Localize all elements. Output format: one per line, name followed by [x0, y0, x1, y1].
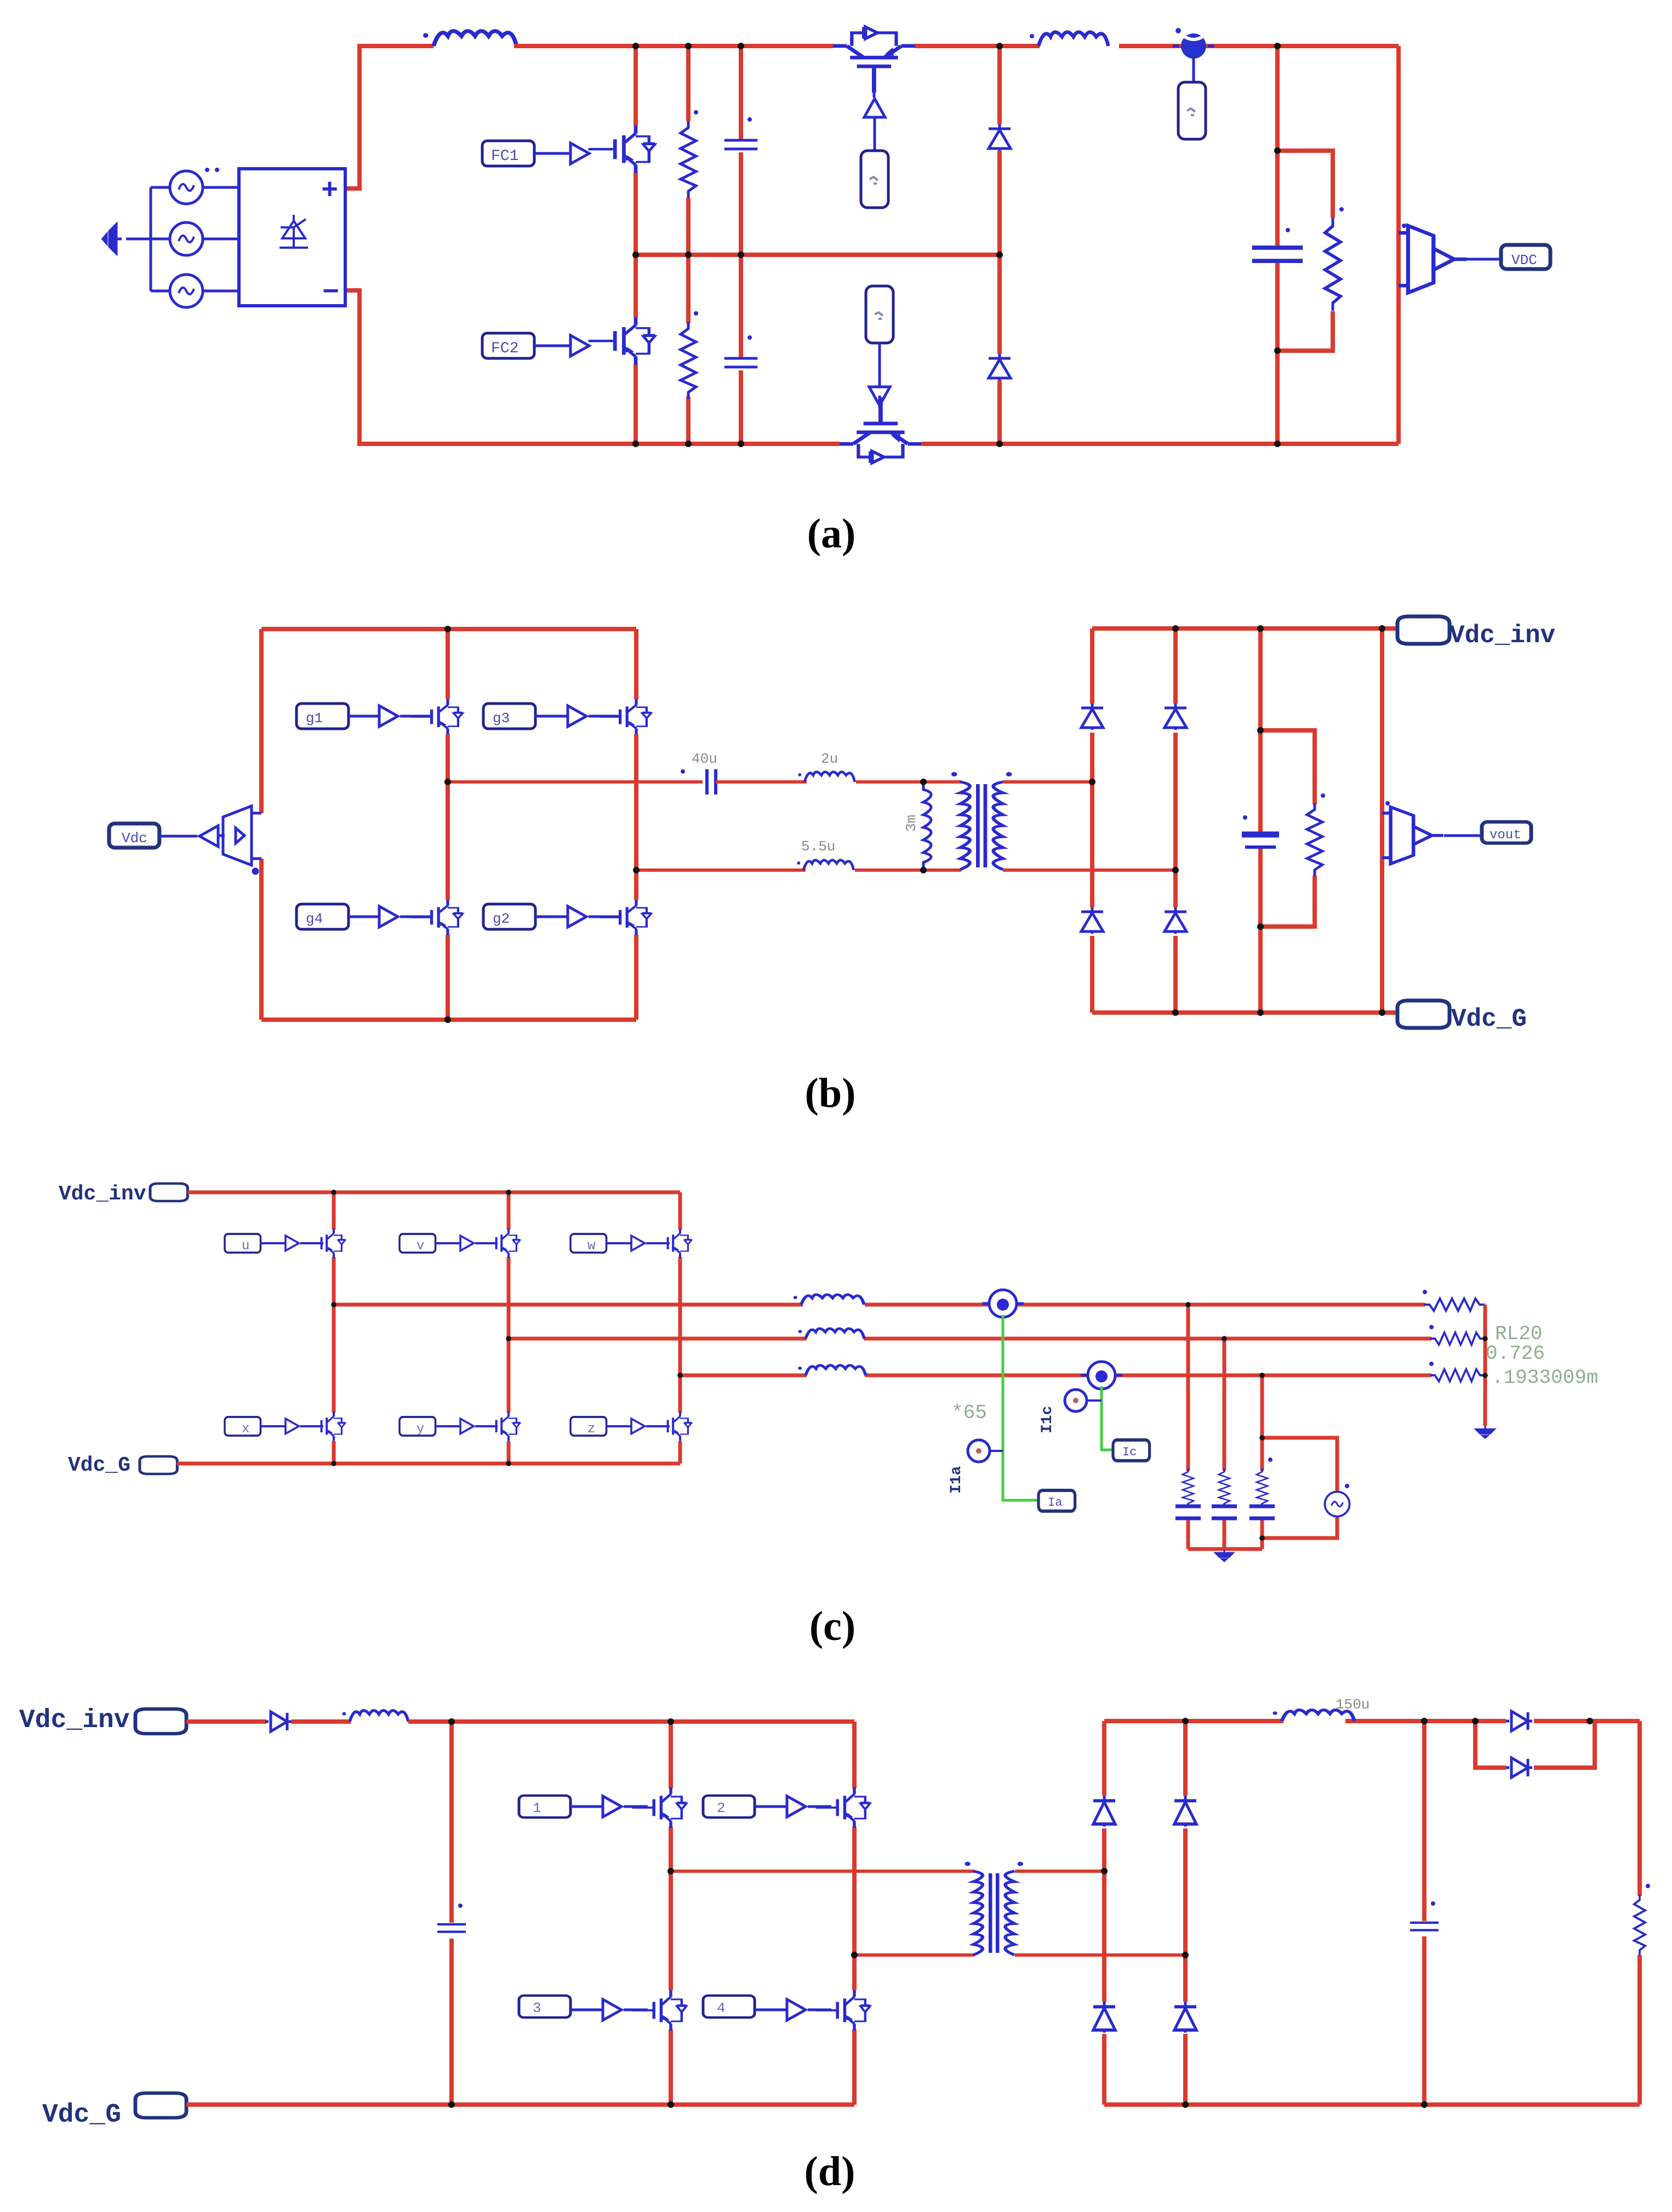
buffer upper C — [631, 1236, 644, 1250]
wire: inductor to transformer primary top — [856, 780, 961, 784]
polarity dot — [1429, 1325, 1434, 1329]
wire: source B leads — [151, 238, 239, 241]
diode DB2 (x2015 lower) — [1093, 2002, 1115, 2033]
wire: source C leads — [151, 290, 239, 293]
svg-text:x: x — [242, 1422, 249, 1437]
wire: bus x1824 diode leg segments — [997, 46, 1002, 444]
current sensor phase C — [1081, 1362, 1122, 1389]
ground filter — [1216, 1550, 1233, 1561]
wire: diode to inductor — [292, 1719, 351, 1724]
buffer p4 — [787, 1999, 806, 2020]
buffer FC1 — [570, 143, 589, 164]
svg-text:−: − — [322, 277, 339, 309]
load resistor — [1634, 1895, 1645, 1956]
probe vd — [1178, 82, 1206, 139]
junction dots right section — [1089, 779, 1095, 785]
junction 1224,3142 — [667, 1718, 674, 1725]
gating probe box Q4 — [866, 286, 893, 343]
junction 2300,1147 — [1257, 625, 1264, 632]
wire: bottom rail — [177, 1462, 680, 1466]
svg-text:(c): (c) — [809, 1603, 855, 1649]
wire: sensor to VDC tag — [1456, 258, 1501, 261]
voltage sensor vout — [1382, 807, 1443, 864]
svg-text:FC2: FC2 — [491, 340, 518, 357]
polarity dot sensor — [1385, 801, 1390, 805]
green wire: sensor C down to Ic tag — [1102, 1386, 1113, 1450]
gating block z (lower C) — [570, 1417, 607, 1436]
polarity dot R1 — [694, 110, 698, 115]
buffer g4 — [379, 906, 398, 927]
wire: bus xC 1241 — [678, 1192, 682, 1464]
wire: ground to source bus — [126, 238, 151, 241]
wire: to buffer — [436, 1242, 460, 1244]
wire: right section bottom rail — [1092, 1010, 1382, 1015]
resistor Rload (loop x2399) — [1307, 803, 1322, 876]
output capacitor (bus x2300, polarized) — [1242, 834, 1279, 847]
gating probe box Q3 — [861, 151, 888, 208]
wire: output bridge bus x2163 — [1183, 1721, 1188, 2105]
svg-text:150u: 150u — [1336, 1696, 1369, 1713]
junction 2303,2624 — [1259, 1435, 1265, 1441]
buffer lower C — [631, 1419, 644, 1433]
diode DB4 (x2163 lower) — [1174, 2002, 1196, 2033]
junction 824,3841 — [448, 2101, 455, 2108]
wire: cap bus x2300 — [1258, 628, 1263, 1013]
junction dots snubber loop — [1274, 147, 1281, 154]
junction 1256,810 — [685, 441, 692, 447]
junction 2145,1588 — [1172, 867, 1179, 873]
junction 1256,84 — [685, 43, 692, 49]
junction 1559,3568 — [851, 1952, 858, 1958]
svg-text:g2: g2 — [493, 911, 510, 927]
junction 2303,2807 — [1259, 1535, 1265, 1541]
svg-text:.1933009m: .1933009m — [1492, 1367, 1598, 1389]
wire: top rail middle segment — [514, 44, 833, 48]
voltage sensor VDC — [1399, 226, 1467, 293]
svg-text:FC1: FC1 — [491, 148, 518, 165]
junction 2331,640 — [1274, 347, 1281, 354]
IGBT C-low — [652, 1411, 692, 1441]
wire: bridge mid tap to primary top — [671, 1870, 974, 1873]
svg-text:VDC: VDC — [1511, 252, 1537, 268]
wire: bottom rail right segment — [922, 442, 1399, 446]
inductor L2 on top rail — [1030, 32, 1108, 46]
diode DB3 (x2163 upper) — [1174, 1796, 1196, 1827]
buffer p2 — [787, 1796, 806, 1817]
wire: top rail right of top IGBT — [915, 44, 1040, 48]
wire: to buffer — [436, 1425, 460, 1427]
wire: g4 to buffer — [349, 916, 379, 918]
wire: bus xB 928 — [507, 1192, 511, 1464]
wire: to buffer — [570, 1805, 603, 1808]
svg-text:1: 1 — [533, 1800, 541, 1816]
junction 2300,1333 — [1257, 727, 1264, 734]
load RL phase C — [1430, 1369, 1485, 1381]
svg-text:(a): (a) — [807, 511, 856, 557]
branch B capacitor — [1212, 1506, 1237, 1518]
inductor phase B — [798, 1329, 864, 1339]
junction 1352,465 — [738, 252, 744, 258]
polarity dot C2 — [747, 335, 752, 340]
wire: phase B line — [509, 1337, 1431, 1341]
gating block p3 (lower-left) — [519, 1996, 570, 2017]
polarity dot sensor — [1402, 224, 1406, 228]
polarity dot 40u — [681, 769, 685, 774]
terminal tag Vdc input — [109, 824, 159, 848]
wire: bus x1160 segments — [634, 46, 638, 444]
inductor 5.5u — [797, 860, 853, 870]
wire: dc-link cap bus x824 — [449, 1722, 454, 2105]
terminal tag vout — [1482, 822, 1531, 843]
IGBT Q3 (series in top rail, horizontal) — [833, 27, 915, 93]
svg-text:g3: g3 — [493, 710, 510, 727]
transformer T — [965, 1862, 1023, 1955]
AC source vgrid — [1325, 1492, 1350, 1517]
capacitor 40u (series, vertical plates) — [707, 769, 716, 795]
output capacitor — [1410, 1923, 1439, 1930]
svg-text:0.726: 0.726 — [1486, 1342, 1545, 1365]
gating block FC1 — [482, 141, 534, 166]
svg-text:w: w — [587, 1239, 596, 1254]
junction 928,2671 — [506, 1461, 511, 1466]
polarity dot — [253, 869, 258, 873]
input inductor — [343, 1711, 408, 1722]
dc-link capacitor — [437, 1924, 466, 1932]
junction 1224,3841 — [667, 2101, 674, 2108]
svg-text:RL20: RL20 — [1495, 1323, 1542, 1345]
wire: bridge mid tap A to cap — [448, 780, 703, 784]
wire: to buffer — [607, 1242, 631, 1244]
junction dots transformer taps — [920, 779, 927, 785]
svg-text:(d): (d) — [804, 2148, 855, 2194]
svg-text:Vdc_G: Vdc_G — [68, 1454, 130, 1477]
IGBT Q2 (lower, bus x1160) — [589, 317, 655, 364]
junction 1241,2510 — [677, 1373, 683, 1378]
IGBT S1 (upper, bus x817) — [411, 699, 463, 734]
junction 2303,2510 — [1259, 1373, 1265, 1378]
wire: to buffer — [261, 1242, 286, 1244]
wire: diode bus x2145 — [1173, 628, 1178, 1013]
svg-text:2u: 2u — [821, 751, 838, 767]
wire: bridge mid tap B — [636, 868, 806, 872]
wire: output bridge bus x2015 — [1102, 1721, 1106, 2105]
wire: filter common bus — [1188, 1547, 1262, 1551]
junction 1256,465 — [685, 252, 692, 258]
magnetizing inductor 3m (vertical) — [923, 782, 931, 870]
wire: secondary top to bridge — [1003, 780, 1092, 784]
wire: right edge bus — [1396, 46, 1401, 444]
junction dots top rail — [331, 1190, 336, 1195]
junction 2331,810 — [1274, 441, 1281, 447]
junction 2145,1848 — [1172, 1009, 1179, 1016]
wire: bridge bus x1559 — [852, 1722, 857, 2105]
junction dots left section — [448, 1718, 455, 1725]
svg-text:4: 4 — [717, 2000, 726, 2016]
junction 2163,3141 — [1182, 1718, 1189, 1724]
diode D1 (bus x1824 upper) — [989, 124, 1011, 151]
gating block g1 (upper-left) — [296, 704, 349, 729]
wire: secondary top to bridge — [1015, 1870, 1104, 1873]
rectifier bridge block — [239, 169, 345, 309]
wire: filter branch C — [1260, 1375, 1264, 1549]
transformer T1 — [951, 772, 1012, 870]
wire: right edge bus — [1380, 628, 1384, 1013]
wire: resistor loop — [1260, 730, 1315, 927]
junction 1352,810 — [738, 441, 744, 447]
resistor R1 upper — [681, 121, 696, 198]
junction 928,2176 — [506, 1190, 511, 1195]
junction 1224,3415 — [667, 1868, 674, 1874]
junction 1824,465 — [996, 252, 1003, 258]
wire: center bus x817 segments — [446, 629, 450, 1020]
load RL phase A — [1424, 1299, 1485, 1311]
resistor R2 lower — [681, 322, 696, 399]
polarity dot load — [1646, 1884, 1650, 1888]
gating block x (lower A) — [225, 1417, 261, 1436]
junction 817,1427 — [444, 779, 451, 785]
polarity dot R2 — [694, 311, 698, 316]
gating block v (upper B) — [400, 1234, 436, 1253]
polarity dot C3 — [1286, 228, 1290, 232]
junction 2300,1848 — [1257, 1009, 1264, 1016]
svg-text:z: z — [587, 1422, 595, 1437]
ammeter I1a circle — [968, 1440, 1003, 1462]
wire: inductor to top rail — [408, 1719, 854, 1724]
diode D1 (x1993 upper) — [1081, 704, 1103, 730]
inductor 2u — [798, 772, 854, 782]
IGBT T2 (upper, bus x1559) — [816, 1787, 870, 1828]
branch B damping resistor — [1219, 1468, 1230, 1507]
AC source Va — [170, 171, 203, 204]
wire: to buffer — [607, 1425, 631, 1427]
junction dots mid rail — [632, 252, 639, 258]
wire: phase A line — [334, 1303, 1425, 1307]
wire: to buffer — [755, 1805, 787, 1808]
polarity dot branch C — [1268, 1457, 1272, 1462]
svg-text:(b): (b) — [805, 1070, 856, 1116]
IGBT B-high — [481, 1228, 520, 1258]
junction dots output section — [1101, 1868, 1108, 1874]
junction 2300,1691 — [1257, 923, 1264, 930]
wire: right section top rail — [1092, 626, 1382, 631]
diode D2 (bus x1824 lower) — [989, 354, 1011, 380]
wire: box to buffer Q4 — [878, 343, 881, 387]
wire: filter branch B — [1223, 1339, 1226, 1549]
buffer g3 — [568, 706, 586, 727]
junction 2163,3841 — [1182, 2101, 1189, 2108]
polarity dot C1 — [747, 117, 752, 122]
AC source Vb — [170, 222, 203, 255]
inductor phase A — [794, 1295, 864, 1305]
svg-text:3m: 3m — [903, 815, 920, 832]
output rail diode — [1506, 1711, 1532, 1731]
gating block FC2 — [482, 333, 534, 358]
wire: FC1 to buffer — [534, 152, 570, 155]
wire: g3 to buffer — [535, 715, 568, 718]
clamp diode — [1506, 1758, 1532, 1777]
polarity dot R3 — [1339, 207, 1344, 212]
IGBT S3 (upper, bus x1161) — [600, 699, 652, 734]
branch C damping resistor — [1257, 1468, 1268, 1507]
wire: right bus x1161 segments — [634, 629, 638, 1020]
wire: g2 to buffer — [535, 916, 568, 918]
gating block w (upper C) — [570, 1234, 607, 1253]
junction dots load bus — [1482, 1336, 1488, 1341]
wire: cap to inductor 2u — [716, 780, 807, 784]
terminal tag Ia — [1038, 1490, 1075, 1511]
wire: left bridge top rail — [261, 627, 636, 631]
wire: bus x2331 with cap gap — [1275, 46, 1280, 444]
svg-text:v: v — [416, 1239, 424, 1254]
IGBT T3 (lower, bus x1224) — [632, 1990, 687, 2031]
buffer (pointing left) — [199, 826, 218, 847]
polarity dot — [1429, 1362, 1434, 1366]
input diode — [265, 1712, 292, 1731]
branch A capacitor — [1175, 1506, 1201, 1518]
ammeter I1c circle — [1065, 1390, 1102, 1411]
svg-text:Ia: Ia — [1048, 1496, 1062, 1510]
junction 609,2381 — [331, 1302, 336, 1307]
wire: Q3 gate down to buffer — [873, 91, 876, 98]
wire: right edge bus — [1637, 1721, 1642, 2105]
svg-text:Vdc_G: Vdc_G — [42, 2100, 121, 2130]
svg-text:3: 3 — [533, 2000, 541, 2016]
gating block g3 (upper-right) — [483, 704, 535, 729]
IGBT A-low — [306, 1411, 345, 1441]
junction 2692,3141 — [1472, 1718, 1479, 1724]
svg-text:+: + — [321, 175, 338, 207]
wire: top rail rightmost segment — [1119, 44, 1399, 48]
junction dots bottom rail — [632, 441, 639, 447]
junction 2163,3568 — [1182, 1952, 1189, 1958]
wire: stub to Vdc_G tag — [1382, 1010, 1399, 1015]
junction 1161,1588 — [633, 867, 640, 873]
wire: bridge mid tap to primary bottom — [854, 1953, 974, 1957]
wire: g1 to buffer — [349, 715, 379, 718]
svg-text:Vdc_inv: Vdc_inv — [19, 1706, 130, 1735]
svg-text:g1: g1 — [306, 710, 323, 727]
AC source Vc — [170, 275, 203, 307]
wire: bridge bus x1224 — [669, 1722, 673, 2105]
buffer upper A — [286, 1236, 299, 1250]
buffer p1 — [603, 1796, 621, 1817]
junction 2331,84 — [1274, 43, 1281, 49]
wire: secondary bottom to bridge — [1003, 868, 1175, 872]
wire: mid rail — [636, 253, 1000, 257]
wire: buffer to gating box — [874, 117, 876, 151]
wire: diode bus x1993 — [1090, 628, 1094, 1013]
polarity dot source — [1345, 1484, 1349, 1488]
junction dots bottom rail — [331, 1461, 336, 1466]
wire: output top rail — [1104, 1719, 1640, 1723]
IGBT T1 (upper, bus x1224) — [632, 1787, 687, 1828]
wire: bottom rail left with - lead — [345, 290, 840, 444]
junction 2145,1147 — [1172, 625, 1179, 632]
junction dots filter taps — [1185, 1302, 1191, 1307]
capacitor C3 (bus x2331) — [1252, 248, 1303, 261]
wire: Vdc tag to buffer — [160, 835, 197, 838]
IGBT Q4 (series in bottom rail, horizontal mirrored) — [840, 397, 922, 463]
branch C capacitor — [1249, 1506, 1275, 1518]
polarity dot cap — [458, 1904, 463, 1908]
polarity dots above sources — [205, 168, 209, 172]
buffer upper B — [460, 1236, 473, 1250]
wire: left edge with source gap — [259, 629, 264, 1020]
wire: inductor 5.5u to transformer — [855, 868, 961, 872]
IGBT S2 (lower, bus x1161) — [600, 900, 652, 935]
svg-text:Vdc_inv: Vdc_inv — [59, 1182, 146, 1206]
wire: bottom rail left section — [186, 2102, 854, 2107]
wire: secondary bottom to bridge — [1015, 1953, 1185, 1957]
junction 2522,1848 — [1379, 1009, 1385, 1016]
junction dots left bridge — [444, 626, 451, 632]
wire: phase C line — [680, 1374, 1431, 1378]
wire: output cap bus x2599 — [1422, 1721, 1426, 2105]
wire: load common bus — [1483, 1305, 1487, 1426]
wire: buffer to Q4 gate — [878, 396, 881, 408]
junction 817,1861 — [444, 1016, 451, 1023]
svg-text:Vdc_inv: Vdc_inv — [1450, 621, 1555, 650]
wire: sensor to vout tag — [1444, 834, 1482, 837]
svg-text:40u: 40u — [692, 751, 717, 767]
svg-text:vout: vout — [1490, 828, 1521, 843]
gating block p1 (upper-left) — [519, 1796, 570, 1817]
junction 2599,3841 — [1421, 2101, 1428, 2108]
buffer FC2 — [570, 335, 589, 356]
svg-text:2: 2 — [717, 1800, 726, 1816]
svg-text:y: y — [416, 1422, 424, 1437]
wire: source bus vertical — [150, 187, 152, 291]
wire: to buffer — [261, 1425, 286, 1427]
terminal tag VDC — [1501, 245, 1550, 269]
junction 1685,1588 — [920, 867, 927, 873]
wire: left bridge bottom rail — [261, 1018, 636, 1022]
wire: input to diode — [186, 1719, 266, 1724]
inductor phase C — [798, 1365, 865, 1375]
junction dots top rail — [632, 43, 639, 49]
svg-text:I1a: I1a — [948, 1466, 965, 1494]
ground (three-phase source) — [103, 225, 122, 253]
wire: top rail — [187, 1191, 680, 1194]
wire: to buffer — [570, 2009, 603, 2011]
IGBT B-low — [481, 1411, 520, 1441]
wire: stub to Vdc_inv tag — [1382, 626, 1399, 631]
wire: source A leads — [151, 186, 239, 189]
gating block p2 (upper-right) — [703, 1796, 755, 1817]
junction 1352,84 — [738, 43, 744, 49]
diode D4 (x2145 lower) — [1165, 907, 1186, 934]
ground load — [1476, 1426, 1494, 1438]
capacitor C1 upper — [724, 140, 757, 149]
svg-text:g4: g4 — [306, 911, 323, 927]
wire: to buffer — [755, 2009, 787, 2011]
terminal Vdc_G — [1397, 1001, 1450, 1028]
gating block y (lower B) — [400, 1417, 436, 1436]
IGBT A-high — [306, 1228, 345, 1258]
wire: bus xA 609 — [332, 1192, 336, 1464]
polarity dot output cap — [1431, 1901, 1435, 1906]
wire: top rail left segment with + lead — [345, 46, 433, 188]
svg-text:I1c: I1c — [1039, 1406, 1056, 1433]
polarity dots loads — [1423, 1290, 1427, 1294]
current sensor phase A — [982, 1290, 1024, 1317]
branch A damping resistor — [1183, 1468, 1194, 1507]
load RL phase B — [1430, 1333, 1485, 1345]
wire: FC2 to buffer — [534, 345, 570, 347]
svg-text:Vdc_G: Vdc_G — [1451, 1005, 1527, 1033]
IGBT C-high — [652, 1228, 692, 1258]
wire: clamp diode loop — [1475, 1721, 1595, 1768]
